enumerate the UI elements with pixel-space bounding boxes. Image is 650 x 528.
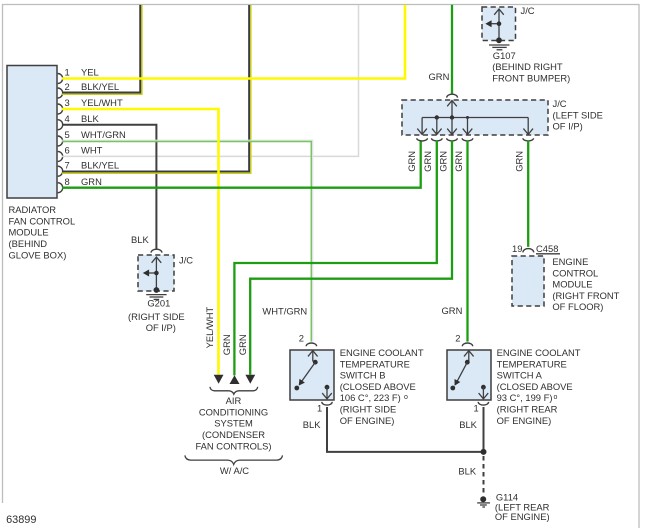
wire BLK/YEL pin7 to top edge — [62, 5, 251, 173]
pin 2 connector arc — [58, 88, 63, 98]
svg-text:(RIGHT SIDE: (RIGHT SIDE — [340, 404, 397, 415]
svg-text:106 C°, 223 F): 106 C°, 223 F) — [340, 392, 401, 403]
A/C arrow down from GRN branch 3 — [245, 375, 255, 384]
switch A terminal 2 arrow — [464, 351, 474, 362]
J/C I/P internal bus — [422, 117, 528, 119]
pin 1 label — [65, 67, 99, 78]
svg-text:WHT/GRN: WHT/GRN — [262, 305, 307, 316]
svg-text:BLK: BLK — [458, 466, 476, 477]
pin 2 label — [65, 81, 120, 92]
svg-text:GRN: GRN — [237, 334, 248, 355]
svg-text:1: 1 — [474, 402, 479, 413]
svg-text:63899: 63899 — [6, 514, 36, 526]
svg-text:1: 1 — [65, 67, 70, 78]
switch B pin 2 breakout arc — [306, 343, 316, 346]
svg-text:FRONT BUMPER): FRONT BUMPER) — [492, 73, 570, 84]
engine coolant temperature switch B box — [290, 350, 334, 400]
svg-text:ENGINE: ENGINE — [552, 256, 588, 267]
pin 6 connector arc — [58, 151, 63, 161]
svg-text:4: 4 — [65, 113, 70, 124]
svg-text:CONDITIONING: CONDITIONING — [199, 406, 268, 417]
svg-text:FAN CONTROLS): FAN CONTROLS) — [195, 440, 271, 451]
svg-text:ENGINE COOLANT: ENGINE COOLANT — [497, 347, 581, 358]
svg-text:GRN: GRN — [429, 71, 450, 82]
wire WHT/GRN pin5 white stripe — [62, 140, 313, 341]
bus branch 5 with down arrow — [523, 118, 533, 135]
svg-text:MODULE: MODULE — [552, 279, 592, 290]
bus branch 1 with down arrow — [417, 118, 427, 135]
G201 internal branch with left arrow — [143, 270, 159, 277]
bus branch 4 with down arrow — [463, 118, 473, 135]
switch A caption — [497, 347, 581, 426]
brace over A/C caption — [210, 387, 258, 394]
G107 internal branch with left arrow — [485, 20, 501, 27]
svg-text:GRN: GRN — [437, 151, 448, 172]
J/C I/P labels — [553, 98, 603, 132]
air conditioning system caption — [195, 395, 271, 451]
pin 1 connector arc — [58, 74, 63, 84]
svg-text:MODULE: MODULE — [9, 227, 49, 238]
svg-text:G201: G201 — [147, 298, 170, 309]
junction connector J/C G107 box — [482, 7, 516, 41]
G201 internal riser with up arrow — [152, 257, 162, 290]
svg-text:1: 1 — [317, 402, 322, 413]
pin 3 label — [65, 97, 123, 108]
switch B pin 1 breakout arc — [322, 402, 332, 405]
svg-text:RADIATOR: RADIATOR — [9, 204, 57, 215]
svg-text:(RIGHT SIDE: (RIGHT SIDE — [128, 311, 185, 322]
svg-text:BLK/YEL: BLK/YEL — [81, 81, 119, 92]
svg-text:2: 2 — [299, 333, 304, 344]
pin 7 label — [65, 159, 120, 170]
switch A pin 2 breakout arc — [462, 343, 472, 346]
svg-text:2: 2 — [65, 81, 70, 92]
engine coolant temperature switch A box — [447, 350, 491, 400]
pin 4 connector arc — [58, 120, 63, 130]
switch B terminal 2 arrow — [308, 351, 318, 362]
svg-text:YEL/WHT: YEL/WHT — [81, 97, 123, 108]
wire BLK/YEL pin2 to top edge — [62, 5, 142, 94]
bus junction dots — [435, 115, 469, 119]
svg-text:OF ENGINE): OF ENGINE) — [497, 415, 552, 426]
svg-text:3: 3 — [65, 97, 70, 108]
G201 breakout arc — [151, 249, 162, 252]
svg-text:OF ENGINE): OF ENGINE) — [340, 415, 395, 426]
svg-text:2: 2 — [455, 333, 460, 344]
svg-text:WHT/GRN: WHT/GRN — [81, 129, 126, 140]
bus branch 2 with down arrow — [432, 118, 442, 135]
svg-text:GLOVE BOX): GLOVE BOX) — [9, 249, 67, 260]
pin 3 connector arc — [58, 104, 63, 114]
pin 8 connector arc — [58, 183, 63, 193]
svg-text:OF I/P): OF I/P) — [553, 121, 583, 132]
wire GRN pin8 to J/C — [62, 141, 421, 188]
G114 labels — [495, 492, 550, 523]
A/C arrow up from GRN branch 2 — [230, 375, 240, 384]
wire GRN J/C branch5 to C458 — [527, 141, 529, 247]
pin 7 connector arc — [58, 166, 63, 176]
J/C I/P breakout arc top — [447, 94, 458, 97]
svg-text:(RIGHT REAR: (RIGHT REAR — [497, 404, 558, 415]
svg-text:8: 8 — [65, 176, 70, 187]
svg-text:GRN: GRN — [514, 151, 525, 172]
svg-text:BLK: BLK — [81, 113, 99, 124]
G107 ground symbol — [489, 37, 510, 49]
switch A terminal 1 arrow — [479, 385, 489, 399]
switch B movable blade — [294, 360, 317, 391]
svg-text:TEMPERATURE: TEMPERATURE — [340, 358, 410, 369]
svg-text:OF FLOOR): OF FLOOR) — [552, 301, 603, 312]
GRN labels under J/C I/P — [406, 151, 525, 172]
pin 6 label — [65, 145, 103, 156]
svg-text:WHT: WHT — [81, 145, 103, 156]
svg-text:(RIGHT FRONT: (RIGHT FRONT — [552, 290, 619, 301]
svg-text:C458: C458 — [536, 243, 558, 254]
svg-text:GRN: GRN — [442, 305, 463, 316]
svg-text:OF I/P): OF I/P) — [146, 322, 176, 333]
switch A movable blade — [450, 360, 469, 391]
radiator fan control module box — [7, 66, 57, 199]
G201 ground symbol — [146, 287, 166, 299]
svg-text:BLK: BLK — [131, 234, 149, 245]
svg-text:6: 6 — [65, 145, 70, 156]
wire YEL/WHT pin3 to A/C arrow — [62, 109, 219, 375]
switch B terminal 1 arrow — [322, 385, 332, 399]
pin 5 connector arc — [58, 136, 63, 146]
svg-text:J/C: J/C — [521, 5, 535, 16]
svg-text:G107: G107 — [493, 50, 516, 61]
bus branch 3 with down arrow — [447, 118, 457, 135]
wire BLK switch A pin1 to junction — [483, 407, 485, 450]
wire GRN from top edge to J/C I/P — [451, 5, 453, 94]
junction connector J/C G201 box — [138, 255, 174, 291]
svg-text:(BEHIND RIGHT: (BEHIND RIGHT — [492, 61, 563, 72]
svg-text:YEL/WHT: YEL/WHT — [204, 306, 215, 348]
pin 8 label — [65, 176, 102, 187]
svg-text:(LEFT SIDE: (LEFT SIDE — [553, 109, 603, 120]
svg-text:o: o — [554, 394, 558, 401]
junction node — [481, 449, 487, 455]
engine control module box — [512, 256, 544, 306]
svg-text:TEMPERATURE: TEMPERATURE — [497, 358, 567, 369]
A/C arrow from YEL/WHT wire — [214, 375, 224, 384]
svg-text:GRN: GRN — [221, 334, 232, 355]
engine control module labels — [552, 256, 619, 312]
svg-text:5: 5 — [65, 129, 70, 140]
svg-text:BLK: BLK — [303, 419, 321, 430]
svg-text:19: 19 — [512, 243, 522, 254]
svg-text:SWITCH B: SWITCH B — [340, 370, 386, 381]
svg-text:BLK: BLK — [459, 419, 477, 430]
wire WHT pin6 to top border — [62, 5, 359, 156]
breakout arcs below J/C I/P — [417, 138, 534, 141]
pin 4 label — [65, 113, 100, 124]
J/C I/P internal feed with up arrow — [447, 101, 457, 118]
switch A pin 1 breakout arc — [478, 402, 488, 405]
svg-text:OF ENGINE): OF ENGINE) — [495, 511, 550, 522]
svg-text:93 C°, 199 F): 93 C°, 199 F) — [497, 392, 553, 403]
G201 labels — [128, 254, 193, 333]
svg-text:CONTROL: CONTROL — [552, 267, 598, 278]
svg-text:o: o — [404, 394, 408, 401]
svg-text:SYSTEM: SYSTEM — [214, 418, 253, 429]
wire BLK dashed to G114 — [483, 456, 485, 494]
wire WHT/GRN pin5 to switch B pin2 — [62, 142, 311, 342]
C458 breakout arc — [523, 249, 534, 253]
brace over W/ A/C — [185, 455, 283, 464]
svg-text:J/C: J/C — [179, 254, 193, 265]
wire GRN J/C branch2 to A/C up arrow — [234, 141, 436, 376]
svg-text:YEL: YEL — [81, 67, 99, 78]
svg-text:W/ A/C: W/ A/C — [220, 465, 249, 476]
junction connector J/C left side of I/P box — [402, 100, 548, 135]
ground G114 symbol — [477, 496, 490, 507]
wire GRN J/C branch3 to A/C down arrow — [250, 141, 452, 375]
svg-text:GRN: GRN — [422, 151, 433, 172]
svg-text:7: 7 — [65, 159, 70, 170]
svg-text:(CONDENSER: (CONDENSER — [202, 429, 265, 440]
G107 internal riser with up arrow — [494, 9, 504, 40]
svg-text:J/C: J/C — [553, 98, 567, 109]
wire GRN J/C branch4 to switch A pin2 — [466, 141, 468, 342]
svg-text:(CLOSED ABOVE: (CLOSED ABOVE — [340, 381, 416, 392]
svg-text:GRN: GRN — [453, 151, 464, 172]
svg-text:GRN: GRN — [81, 176, 102, 187]
svg-text:GRN: GRN — [406, 151, 417, 172]
svg-text:BLK/YEL: BLK/YEL — [81, 159, 119, 170]
wire YEL pin1 to top edge — [62, 5, 405, 79]
G107 labels — [492, 5, 570, 83]
C458 connector label underlined — [536, 243, 560, 254]
svg-text:(BEHIND: (BEHIND — [9, 238, 48, 249]
wire BLK pin4 to G201 — [62, 125, 156, 250]
svg-text:SWITCH A: SWITCH A — [497, 370, 543, 381]
svg-text:FAN CONTROL: FAN CONTROL — [9, 215, 76, 226]
wire BLK switch B pin1 to junction — [327, 407, 482, 452]
svg-text:(CLOSED ABOVE: (CLOSED ABOVE — [497, 381, 573, 392]
switch B caption — [340, 347, 424, 426]
svg-text:ENGINE COOLANT: ENGINE COOLANT — [340, 347, 424, 358]
pin 5 label — [65, 129, 126, 140]
module caption — [9, 204, 76, 260]
svg-text:AIR: AIR — [226, 395, 242, 406]
